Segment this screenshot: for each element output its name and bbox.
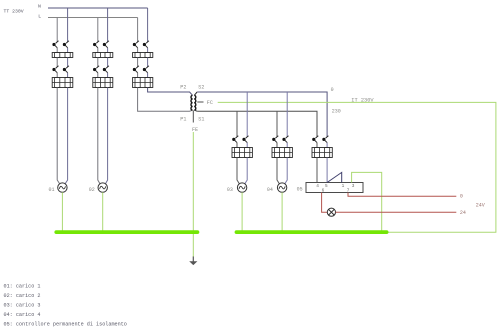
wire branch 3 mid 2 bbox=[137, 58, 139, 67]
wire PE drop load 01 bbox=[61, 192, 63, 230]
breaker contact Q1 pole 2 (upper) bbox=[66, 41, 69, 43]
breaker contact Q2 pole 2 (lower) bbox=[106, 66, 109, 68]
wire FC tap bbox=[197, 101, 203, 103]
wire P1 from branch 3 bbox=[138, 88, 193, 112]
breaker contact 04 pole 2 bbox=[286, 136, 289, 138]
wire branch 04 to load bbox=[277, 158, 279, 184]
svg-text:04: 04 bbox=[267, 187, 273, 193]
wire branch 3 mid 3 bbox=[137, 73, 139, 78]
wire branch 03 mid bbox=[236, 143, 238, 148]
svg-text:05: controllore permanente di: 05: controllore permanente di isolamento bbox=[4, 321, 127, 327]
svg-text:01: carico 1: 01: carico 1 bbox=[4, 284, 41, 290]
wire PE drop load 04 bbox=[281, 192, 283, 230]
svg-text:0: 0 bbox=[460, 194, 463, 200]
svg-text:3: 3 bbox=[352, 184, 355, 189]
svg-text:N: N bbox=[38, 4, 41, 10]
breaker contact 04 pole 1 bbox=[276, 136, 279, 138]
svg-text:P1: P1 bbox=[180, 116, 186, 122]
wire PE drop load 03 bbox=[241, 192, 243, 230]
wire branch 1 mid 1 bbox=[56, 48, 58, 53]
wire branch 1 right from N bbox=[67, 8, 69, 42]
wire branch 3 right from N bbox=[147, 8, 149, 42]
wire branch 2 mid 2 bbox=[97, 58, 99, 67]
load motor 02 bbox=[98, 183, 107, 192]
wire 24V red right bbox=[336, 211, 457, 213]
load motor 01 bbox=[58, 183, 67, 192]
wire P2 from branch 3 bbox=[148, 88, 193, 96]
wire 0V red bbox=[348, 193, 456, 197]
svg-text:24: 24 bbox=[460, 210, 466, 216]
svg-text:S2: S2 bbox=[198, 85, 204, 91]
svg-text:L: L bbox=[38, 13, 41, 19]
protection box F3b bbox=[133, 78, 153, 88]
wire branch 05 into device bbox=[316, 158, 318, 183]
svg-text:230: 230 bbox=[332, 109, 341, 115]
wire branch 2 to load bbox=[98, 88, 100, 184]
svg-text:02: carico 2: 02: carico 2 bbox=[4, 293, 41, 299]
insulation monitor flag bbox=[327, 172, 342, 182]
load motor 04 bbox=[277, 183, 286, 192]
wire branch 03 left from 230 bbox=[236, 111, 238, 137]
protection box F1b bbox=[52, 78, 73, 88]
PE bar left bbox=[56, 230, 197, 234]
svg-text:TT 230V: TT 230V bbox=[4, 8, 24, 14]
ground earth electrode bbox=[192, 257, 194, 262]
load motor 03 bbox=[237, 183, 246, 192]
wire branch 1 left from L bbox=[56, 18, 58, 42]
svg-text:4: 4 bbox=[316, 184, 319, 189]
svg-text:04: carico 4: 04: carico 4 bbox=[4, 312, 41, 318]
wire branch 03 right from 0 bbox=[246, 92, 248, 137]
protection box F1a bbox=[52, 53, 73, 58]
wire 0 line (S2) bbox=[197, 92, 327, 137]
wire branch 1 mid 3 bbox=[56, 73, 58, 78]
breaker contact 03 pole 2 bbox=[246, 136, 249, 138]
breaker contact 03 pole 1 bbox=[236, 136, 239, 138]
svg-text:S1: S1 bbox=[198, 116, 204, 122]
wire branch 2 left from L bbox=[97, 18, 99, 42]
svg-text:5: 5 bbox=[325, 184, 328, 189]
svg-text:0: 0 bbox=[331, 87, 334, 93]
breaker contact Q2 pole 1 (lower) bbox=[96, 66, 99, 68]
transformer T1 primary winding bbox=[191, 95, 193, 110]
wire FE lead green bbox=[192, 132, 194, 257]
protection box F04 bbox=[272, 148, 292, 158]
breaker contact Q1 pole 1 (upper) bbox=[56, 41, 59, 43]
svg-text:03: carico 3: 03: carico 3 bbox=[4, 303, 41, 309]
breaker contact Q1 pole 2 (lower) bbox=[66, 66, 69, 68]
wire branch 04 mid bbox=[276, 143, 278, 148]
svg-text:1: 1 bbox=[342, 184, 345, 189]
breaker contact 05 pole 2 bbox=[326, 136, 329, 138]
protection box F2a bbox=[93, 53, 113, 58]
transformer T1 secondary winding bbox=[194, 95, 196, 110]
wire branch 03 to load bbox=[237, 158, 239, 184]
breaker contact Q3 pole 2 (lower) bbox=[146, 66, 149, 68]
insulation monitor U1 body bbox=[306, 183, 363, 193]
indicator lamp H1 bbox=[327, 208, 335, 216]
svg-text:FC: FC bbox=[207, 100, 213, 106]
wire L line bbox=[48, 17, 138, 19]
svg-text:02: 02 bbox=[89, 187, 95, 193]
wire 230 line (S1) bbox=[197, 111, 317, 137]
breaker contact Q3 pole 2 (upper) bbox=[146, 41, 149, 43]
wire 24V red left bbox=[322, 193, 328, 213]
svg-text:P2: P2 bbox=[180, 85, 186, 91]
wire FE lead dark bbox=[192, 110, 194, 122]
breaker contact Q1 pole 1 (lower) bbox=[56, 66, 59, 68]
svg-text:03: 03 bbox=[227, 187, 233, 193]
breaker contact Q3 pole 1 (lower) bbox=[136, 66, 139, 68]
wire branch 1 mid 2 bbox=[56, 58, 58, 67]
breaker contact Q3 pole 1 (upper) bbox=[136, 41, 139, 43]
wire branch 05 mid bbox=[316, 143, 318, 148]
breaker contact Q2 pole 2 (upper) bbox=[106, 41, 109, 43]
wire IT green line bbox=[218, 102, 496, 232]
breaker contact Q2 pole 1 (upper) bbox=[96, 41, 99, 43]
wire PE drop load 02 bbox=[102, 192, 104, 230]
transformer T1 secondary leads bbox=[194, 92, 197, 111]
svg-text:05: 05 bbox=[297, 187, 303, 193]
wire N line bbox=[48, 7, 148, 9]
wire branch 2 mid 3 bbox=[97, 73, 99, 78]
wire branch 2 mid 1 bbox=[97, 48, 99, 53]
wire branch 3 mid 1 bbox=[137, 48, 139, 53]
protection box F05 bbox=[312, 148, 332, 158]
svg-text:01: 01 bbox=[49, 187, 55, 193]
wire branch 3 left from L bbox=[137, 18, 139, 42]
wire branch 04 right from 0 bbox=[286, 92, 288, 137]
wire branch 04 left from 230 bbox=[276, 111, 278, 137]
wire branch 2 right from N bbox=[107, 8, 109, 42]
svg-text:IT 230V: IT 230V bbox=[351, 98, 374, 104]
PE bar right bbox=[237, 230, 387, 234]
protection box F03 bbox=[232, 148, 252, 158]
protection box F3a bbox=[133, 53, 153, 58]
protection box F2b bbox=[93, 78, 113, 88]
wire branch 1 to load bbox=[57, 88, 59, 184]
svg-text:24V: 24V bbox=[476, 202, 485, 208]
wire device PE loop bbox=[352, 172, 382, 230]
breaker contact 05 pole 1 bbox=[316, 136, 319, 138]
